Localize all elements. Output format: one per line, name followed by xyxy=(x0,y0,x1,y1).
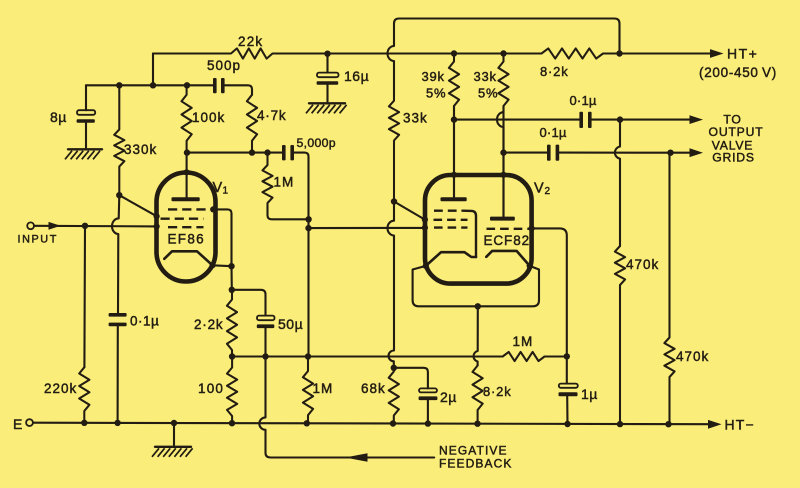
wire branch to 50u xyxy=(232,290,266,316)
svg-text:1µ: 1µ xyxy=(581,386,598,402)
wire node A: filtered HT rail y=85 (8u to 500p left plate) xyxy=(86,84,213,86)
tube V1 cathode xyxy=(164,251,212,265)
resistor R 1M (divider to E) xyxy=(303,357,313,424)
wire vertical x=118 (330k bottom to 0.1u to E line, bulges left over input line) xyxy=(112,195,119,313)
svg-text:FEEDBACK: FEEDBACK xyxy=(439,457,512,471)
svg-text:100: 100 xyxy=(198,381,224,396)
wire 5000p to phase-divider vertical xyxy=(294,153,309,357)
svg-text:50µ: 50µ xyxy=(278,316,303,332)
svg-text:330k: 330k xyxy=(124,142,157,157)
svg-text:100k: 100k xyxy=(192,110,225,125)
wire + resistor R 22k on HT+ line xyxy=(153,48,328,58)
tube V2 triode anode lead xyxy=(502,106,504,217)
node V1 g3 exit dot xyxy=(210,206,216,212)
node junction V2 grid feed xyxy=(391,198,397,204)
tube V2 triode plate bar xyxy=(490,217,515,221)
node junction 1M-divider bottom xyxy=(304,420,310,426)
svg-text:1M: 1M xyxy=(313,381,334,396)
svg-text:NEGATIVE: NEGATIVE xyxy=(439,444,508,458)
wire E / HT- bus xyxy=(33,423,710,425)
svg-text:HT+: HT+ xyxy=(727,46,758,62)
svg-text:INPUT: INPUT xyxy=(18,233,58,245)
svg-text:5%: 5% xyxy=(426,86,446,101)
svg-text:HT−: HT− xyxy=(725,417,755,433)
node V2 pentode cathode dot xyxy=(423,263,429,269)
node V1 grid-1 entry dot xyxy=(154,223,160,229)
terminal arrow HT- xyxy=(708,420,722,429)
node junction 1M top xyxy=(264,149,270,155)
capacitor C 0.1u (lower output) xyxy=(547,145,551,161)
node junction 33k5 bottom / output tap 2 xyxy=(500,149,506,155)
svg-text:(200-450 V): (200-450 V) xyxy=(699,65,777,80)
node junction 470k-1 top xyxy=(617,116,623,122)
resistor R 220k xyxy=(79,367,89,423)
svg-text:0·1µ: 0·1µ xyxy=(570,93,597,108)
node junction top loop right drop xyxy=(616,50,622,56)
svg-text:1M: 1M xyxy=(274,175,295,190)
svg-text:220k: 220k xyxy=(44,381,77,396)
wire V1 anode node y=152.6 xyxy=(187,152,282,154)
node V1 envelope crossing dot xyxy=(184,169,190,175)
wire V2 triode grid to 1M/1u junction xyxy=(532,228,567,383)
node junction 39k bottom / output tap 1 xyxy=(451,116,457,122)
capacitor C 16u (electrolytic) xyxy=(326,54,328,73)
wire HT+ line to 8.2k and HT+ terminal xyxy=(341,48,710,58)
svg-text:V: V xyxy=(534,181,544,197)
node junction 470k-2 top xyxy=(667,150,673,156)
svg-text:E: E xyxy=(13,416,22,432)
svg-text:2: 2 xyxy=(545,186,551,197)
node junction 8.2k bottom xyxy=(474,421,480,427)
terminal INPUT circle xyxy=(27,222,34,229)
arrow NEGATIVE FEEDBACK (points left) xyxy=(345,453,368,461)
wire divider continues down (bulges left over grid line and NFB rail) xyxy=(388,202,395,368)
tube V2 pentode cathode xyxy=(426,252,476,266)
svg-text:0·1µ: 0·1µ xyxy=(540,125,567,140)
node junction V1 cathode xyxy=(228,263,234,269)
wire + resistor R 470k (upper, grid leak 1) jogs left over lower line xyxy=(615,120,620,246)
svg-text:470k: 470k xyxy=(676,349,709,364)
resistor R 100 (V1 cathode) xyxy=(227,357,237,423)
svg-text:33k: 33k xyxy=(403,111,428,126)
tube V1 grid row g3 xyxy=(168,208,213,210)
ground symbol (main earth) xyxy=(155,446,191,448)
wire 220k riser xyxy=(83,226,86,367)
node junction 330k top xyxy=(116,82,122,88)
resistor R 8.2k (V2 cathode bias) xyxy=(473,366,483,424)
svg-text:1: 1 xyxy=(223,186,229,197)
node junction 220k bottom xyxy=(81,420,87,426)
node junction 100k top / V1 anode feed xyxy=(184,82,190,88)
node junction 470k-2 bottom xyxy=(665,421,671,427)
node junction 1M-divider top xyxy=(305,353,311,359)
svg-text:39k: 39k xyxy=(422,69,445,84)
tube V2 pentode grid row g3 xyxy=(434,209,462,211)
svg-text:16µ: 16µ xyxy=(344,68,369,84)
capacitor C 8u (electrolytic) xyxy=(85,85,87,110)
tube V2 pentode grid row g2 xyxy=(434,219,468,221)
wire 2u tap line xyxy=(394,368,428,389)
wire + resistor R 39k 5% (V2 pentode anode load) xyxy=(449,54,459,198)
node junction 330k bottom xyxy=(116,192,122,198)
node junction 2.2k / 50u top xyxy=(229,287,235,293)
node junction 0.1u bottom xyxy=(114,420,120,426)
node V2 envelope crossing dot (left plate) xyxy=(451,172,457,178)
terminal arrow upper output xyxy=(690,115,704,124)
capacitor C 0.1u (input side) xyxy=(109,313,127,317)
node junction 50u bottom xyxy=(262,353,268,359)
wire lower output line y=152.6 xyxy=(504,152,548,154)
wire ground drop xyxy=(173,423,175,445)
node junction 100k bottom / anode xyxy=(184,149,190,155)
wire 22k rail riser x=153 xyxy=(152,54,154,86)
tube V2 pentode grid row g1 xyxy=(434,226,468,228)
node junction 22k left leg xyxy=(150,82,156,88)
svg-text:8·2k: 8·2k xyxy=(483,384,512,399)
wire + resistor R 33k 5% (V2 triode anode load, bulges left over output line) xyxy=(498,54,508,113)
svg-text:OUTPUT: OUTPUT xyxy=(709,125,764,139)
terminal arrow HT+ xyxy=(710,49,724,58)
wire V1 g3 loop to cathode rail xyxy=(213,209,231,266)
tube V2 pentode plate bar xyxy=(441,197,467,201)
tube V2 triode cathode xyxy=(486,251,529,266)
wire cathode junction down, jogs left over NFB rail xyxy=(474,306,478,365)
node V2 pentode grid entry dot xyxy=(422,217,428,223)
wire + resistor R 470k (lower, grid leak 2) xyxy=(664,153,674,425)
wire V2 cathode loop below envelope xyxy=(413,266,539,306)
wire top loop (raw HT to 33k divider) xyxy=(388,19,620,97)
node junction 100 bottom xyxy=(229,420,235,426)
svg-text:1M: 1M xyxy=(513,334,534,349)
svg-text:470k: 470k xyxy=(626,257,659,272)
wire upper output line y=119.6 (hops over x=503.5) xyxy=(454,119,579,121)
node junction input / 220k xyxy=(82,223,88,229)
svg-text:8µ: 8µ xyxy=(50,109,67,125)
tube V1 anode plate bar xyxy=(172,197,200,201)
node junction 68k bottom xyxy=(390,420,396,426)
wire 500p right plate to 4.7k top corner xyxy=(225,85,253,94)
capacitor C 1u xyxy=(559,384,578,388)
wire NFB dropper: 50u bottom to feedback line (hops E line) xyxy=(259,357,434,458)
capacitor C 500p xyxy=(213,78,217,93)
resistor R 330k (g2 feed) xyxy=(114,85,124,195)
svg-text:EF86: EF86 xyxy=(168,232,205,247)
wire INPUT line xyxy=(34,225,157,228)
resistor R 68k xyxy=(389,368,399,424)
node V2 envelope crossing dot (right plate) xyxy=(500,172,506,178)
tube V1 anode lead xyxy=(186,153,188,198)
svg-text:5%: 5% xyxy=(478,86,498,101)
svg-text:22k: 22k xyxy=(238,34,263,49)
wire HT+ line 16u junction toward 8.2k xyxy=(328,52,346,54)
wire diagonal 330k to V1 g2 xyxy=(119,195,156,216)
node junction 470k-1 bottom xyxy=(617,421,623,427)
capacitor C 2u xyxy=(419,388,437,392)
svg-text:68k: 68k xyxy=(361,381,386,396)
node junction 39k top xyxy=(451,50,457,56)
wire cathode junction down xyxy=(230,266,232,290)
terminal E circle xyxy=(26,419,33,426)
node V1 grid-2 entry dot xyxy=(154,213,160,219)
svg-text:33k: 33k xyxy=(474,69,497,84)
svg-text:GRIDS: GRIDS xyxy=(712,150,755,164)
ground symbol below 8u xyxy=(68,148,102,150)
node junction 2.2k bottom / NFB rail left end xyxy=(229,353,235,359)
wire NFB rail (cathode feedback line) xyxy=(232,352,567,361)
tube V2 envelope (ECF82) xyxy=(425,175,532,284)
wire V2 grid line xyxy=(309,227,425,229)
svg-text:ECF82: ECF82 xyxy=(484,233,531,248)
node junction 1M right / V2 grid-2 return xyxy=(564,353,570,359)
node junction 4.7k bottom xyxy=(249,149,255,155)
node junction 33k5 top xyxy=(500,50,506,56)
svg-text:0·1µ: 0·1µ xyxy=(130,314,159,329)
svg-text:2µ: 2µ xyxy=(440,389,457,405)
wire diagonal to V2 pentode grid xyxy=(394,202,425,220)
svg-text:V: V xyxy=(213,180,223,196)
node junction 1u bottom xyxy=(564,421,570,427)
ground symbol below 16u xyxy=(309,102,345,104)
tube V2 triode grid row xyxy=(487,228,530,230)
capacitor C 0.1u (upper output) xyxy=(579,112,583,128)
svg-text:8·2k: 8·2k xyxy=(540,64,569,79)
resistor R 2.2k (V1 cathode bias) xyxy=(227,290,237,357)
resistor R 100k (V1 anode load) xyxy=(182,85,192,152)
svg-text:4·7k: 4·7k xyxy=(257,108,286,123)
capacitor C 50u (cathode bypass) xyxy=(257,316,275,321)
tube V1 grid row g1 xyxy=(168,226,204,228)
tube V1 grid row g2 xyxy=(161,217,204,219)
node V2 g1 entry dot xyxy=(422,225,428,231)
wire V1 cathode to junction xyxy=(213,264,232,267)
node junction cathode loop center xyxy=(475,303,481,309)
node junction ground tap xyxy=(171,420,177,426)
tube V1 envelope (EF86) xyxy=(157,173,216,282)
node junction 68k top / 2u tap xyxy=(391,365,397,371)
svg-text:5,000p: 5,000p xyxy=(297,136,336,150)
node V2 triode cathode dot xyxy=(527,263,533,269)
svg-text:500p: 500p xyxy=(207,58,241,73)
arrow on INPUT line xyxy=(49,222,61,230)
node V2 triode grid exit dot xyxy=(529,225,535,231)
wire + resistor R 33k (divider from raw HT) xyxy=(389,97,399,202)
node junction 16u top xyxy=(324,51,330,57)
svg-text:2·2k: 2·2k xyxy=(194,317,223,332)
terminal arrow lower output xyxy=(690,148,704,157)
capacitor C 5000p (coupling) xyxy=(282,145,286,160)
resistor R 1M (V1 grid-2 network) xyxy=(262,153,272,205)
node junction 1M bottom loop xyxy=(305,216,311,222)
node V1 cathode exit dot xyxy=(209,262,215,268)
tube V2 pentode anode lead xyxy=(453,106,455,197)
resistor R 4.7k xyxy=(247,95,257,153)
node junction V2 grid takeoff xyxy=(305,225,311,231)
node junction 2u bottom xyxy=(425,420,431,426)
